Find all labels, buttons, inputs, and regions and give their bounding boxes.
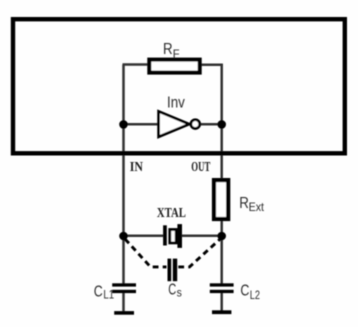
op-amp U1 inverter triangle [159,111,190,136]
svg-text:F: F [173,49,180,61]
crystal XTAL [163,225,167,245]
svg-text:IN: IN [130,159,143,174]
svg-text:s: s [177,288,182,300]
svg-text:C: C [168,282,176,299]
wire crystal row left (node C to XTAL left plate) [124,234,165,237]
node A (inverter input junction) [119,120,128,129]
svg-text:L1: L1 [103,290,114,302]
ground (below CL2) [212,310,231,314]
wire CL2 bottom plate to ground [220,293,223,311]
svg-text:OUT: OUT [191,159,210,174]
ground (below CL1) [114,311,134,315]
capacitor Cs dashed stray connection left [125,239,167,267]
wire node A to inverter input [124,123,160,126]
wire crystal row right (XTAL right plate to node D) [181,234,222,237]
svg-text:L2: L2 [250,290,260,302]
svg-text:R: R [239,195,249,212]
svg-text:R: R [163,41,173,58]
node C (left crystal junction) [119,232,128,241]
node B (inverter output junction) [217,120,226,129]
capacitor CL1 plates [112,283,136,286]
capacitor Cs dashed stray connection right [178,239,220,267]
wire right vertical upper (down to RExt) [220,64,223,180]
IC block boundary [13,19,345,153]
svg-text:Inv: Inv [167,94,185,111]
wire inverter bubble to node B [199,123,222,126]
node D (right crystal junction) [217,232,226,241]
wire top-left horizontal into RF [123,63,151,66]
wire CL1 bottom plate to ground [122,293,125,313]
resistor RExt [214,180,228,219]
svg-text:Ext: Ext [249,202,265,214]
inverter output bubble [191,120,200,129]
wire top-right horizontal from RF to right branch [200,64,223,67]
svg-text:XTAL: XTAL [157,206,186,221]
svg-text:C: C [94,283,103,300]
wire left vertical (RF left terminal down to CL1 top plate) [122,65,125,285]
resistor RF [149,60,199,73]
capacitor Cs plates [168,259,172,282]
wire right vertical lower (RExt to CL2 top plate) [220,219,223,284]
svg-text:C: C [240,283,249,300]
capacitor CL2 plates [210,283,234,286]
